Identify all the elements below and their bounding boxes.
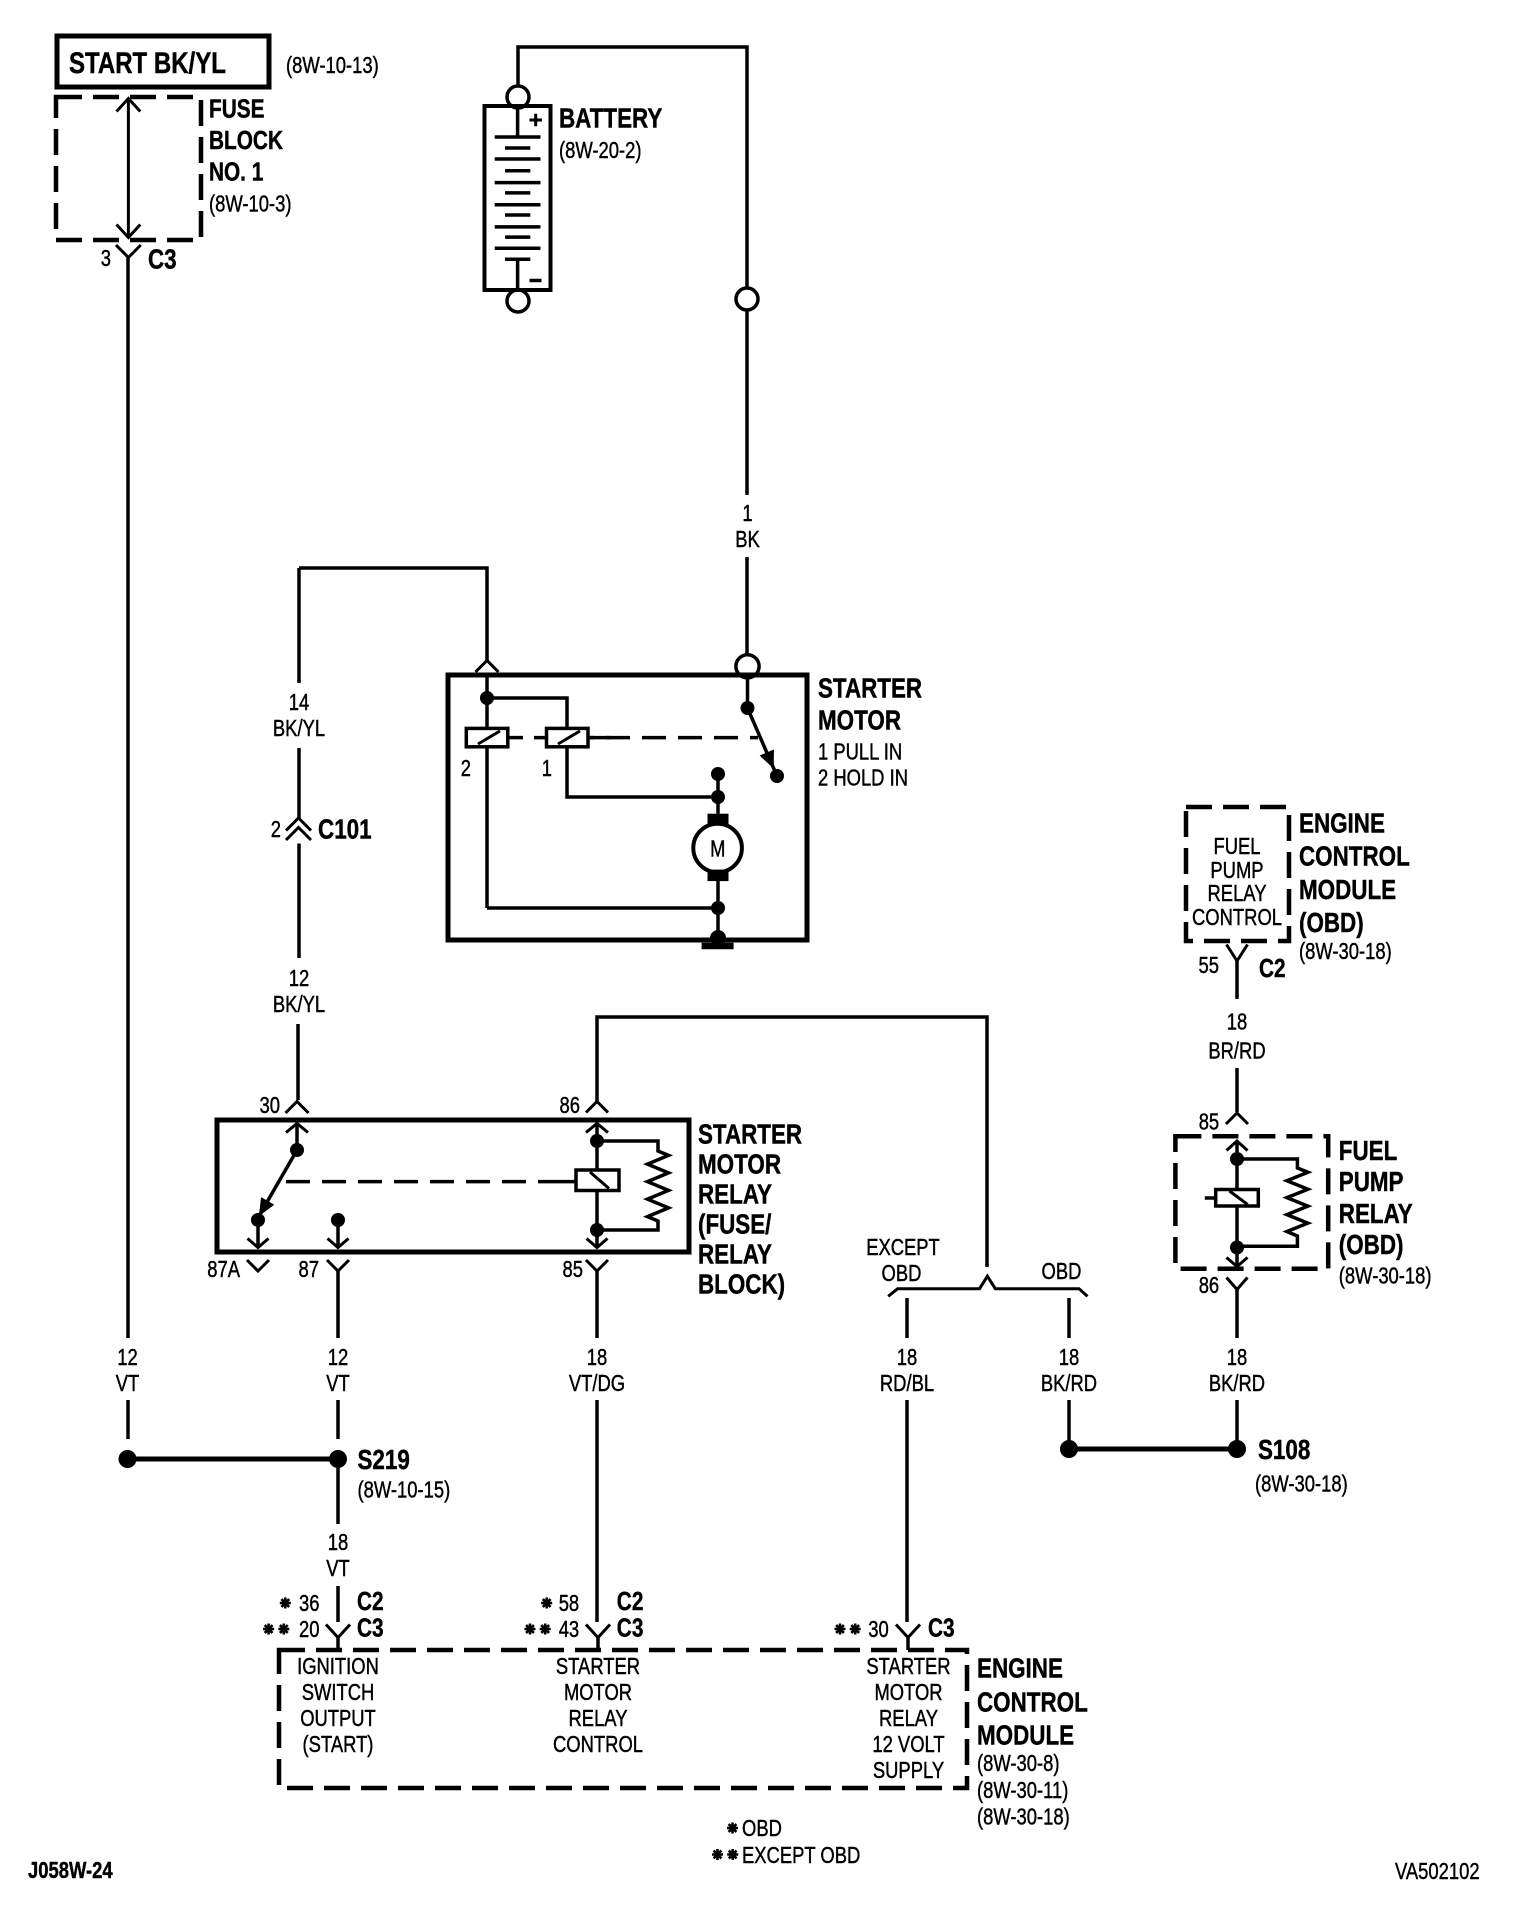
- svg-text:12: 12: [328, 1344, 349, 1370]
- label 12 VT left: [116, 1344, 140, 1396]
- svg-text:(8W-30-18): (8W-30-18): [1255, 1471, 1348, 1497]
- engine control module (OBD) dashed box: [1186, 807, 1289, 941]
- svg-text:C101: C101: [318, 814, 372, 845]
- label STARTER MOTOR RELAY CONTROL: [553, 1653, 643, 1757]
- svg-text:86: 86: [560, 1092, 581, 1118]
- splice S108: [1060, 1440, 1246, 1458]
- connector fork pin 87 below box: [327, 1260, 349, 1271]
- svg-text:MOTOR: MOTOR: [818, 705, 901, 736]
- svg-text:CONTROL: CONTROL: [1192, 904, 1282, 930]
- relay pin 87 stem and arrow: [328, 1220, 349, 1248]
- wire ECM pin 55 to fuel pump relay pin 85: [1235, 1068, 1239, 1112]
- svg-text:12 VOLT: 12 VOLT: [872, 1731, 944, 1757]
- connector C2 pin 55: [1199, 945, 1286, 1000]
- svg-text:BK/RD: BK/RD: [1209, 1370, 1265, 1396]
- fuel pump relay dashed box: [1175, 1136, 1328, 1269]
- label S219 (8W-10-15): [358, 1444, 451, 1503]
- svg-text:MODULE: MODULE: [1299, 874, 1396, 905]
- svg-text:RELAY: RELAY: [569, 1705, 628, 1731]
- svg-text:2 HOLD IN: 2 HOLD IN: [818, 765, 908, 791]
- svg-text:(FUSE/: (FUSE/: [698, 1209, 772, 1240]
- svg-text:(8W-30-8): (8W-30-8): [977, 1750, 1060, 1776]
- svg-text:S108: S108: [1258, 1434, 1310, 1465]
- wire C101 down (12 BK/YL): [297, 844, 301, 959]
- connector fork into starter motor box: [476, 661, 499, 673]
- fixed contact junction dots to motor: [711, 767, 725, 804]
- svg-text:30: 30: [868, 1616, 889, 1642]
- svg-text:BLOCK: BLOCK: [209, 125, 283, 155]
- wire pin 85 to ECM (18 VT/DG): [595, 1271, 599, 1622]
- svg-text:PUMP: PUMP: [1339, 1166, 1404, 1197]
- dashed mechanical link coils to switch: [508, 736, 758, 740]
- svg-text:86: 86: [1199, 1272, 1220, 1298]
- svg-text:VT: VT: [326, 1555, 350, 1581]
- relay pin 85 stem and arrow: [587, 1230, 608, 1248]
- junction motor bottom: [711, 901, 725, 915]
- svg-text:(8W-30-18): (8W-30-18): [1339, 1263, 1432, 1289]
- svg-text:OUTPUT: OUTPUT: [300, 1705, 376, 1731]
- svg-text:MOTOR: MOTOR: [874, 1679, 942, 1705]
- svg-text:(8W-20-2): (8W-20-2): [559, 137, 642, 163]
- connector C101 pin 2: [271, 814, 372, 845]
- footnote legend OBD: [727, 1815, 782, 1841]
- svg-text:87A: 87A: [207, 1256, 240, 1282]
- svg-text:C2: C2: [357, 1586, 384, 1616]
- relay blade with arrow to 87A: [259, 1150, 297, 1216]
- svg-text:C3: C3: [928, 1613, 955, 1643]
- battery positive terminal circle: [507, 86, 529, 108]
- svg-text:85: 85: [1199, 1109, 1220, 1135]
- relay contact 87 dot: [331, 1213, 345, 1227]
- svg-text:SUPPLY: SUPPLY: [873, 1757, 944, 1783]
- relay dashed link blade to coil: [286, 1180, 576, 1184]
- wire split except-OBD / OBD: [888, 1276, 1087, 1296]
- svg-text:CONTROL: CONTROL: [977, 1687, 1088, 1718]
- label 18 RD/BL: [880, 1344, 934, 1396]
- svg-text:1: 1: [542, 755, 552, 781]
- label STARTER MOTOR RELAY (FUSE/ RELAY BLOCK): [698, 1119, 802, 1300]
- switch moving contact dot: [770, 769, 784, 783]
- svg-text:VT: VT: [326, 1370, 350, 1396]
- svg-text:(8W-30-11): (8W-30-11): [977, 1777, 1068, 1803]
- footnote legend EXCEPT OBD: [712, 1842, 860, 1868]
- label ENGINE CONTROL MODULE (OBD) (8W-30-18): [1299, 808, 1410, 965]
- svg-text:36: 36: [299, 1590, 320, 1616]
- svg-text:18: 18: [1059, 1344, 1080, 1370]
- svg-text:M: M: [710, 836, 725, 862]
- svg-text:MOTOR: MOTOR: [564, 1679, 632, 1705]
- svg-text:ENGINE: ENGINE: [1299, 808, 1385, 839]
- coil 2 (hold in): [466, 698, 508, 908]
- svg-text:RELAY: RELAY: [698, 1239, 772, 1270]
- splice S219: [119, 1450, 348, 1468]
- wire terminal to switch pivot: [746, 678, 750, 703]
- svg-text:J058W-24: J058W-24: [28, 1857, 113, 1883]
- svg-text:18: 18: [1227, 1009, 1248, 1035]
- svg-text:OBD: OBD: [882, 1260, 922, 1286]
- footnote stars pin20: [263, 1624, 289, 1635]
- label ENGINE CONTROL MODULE (8W-30-8) (8W-30-11) (8W-30-18): [977, 1653, 1088, 1830]
- label 18 VT/DG: [569, 1344, 625, 1396]
- junction coil feed: [480, 691, 494, 705]
- svg-text:85: 85: [563, 1256, 584, 1282]
- fuel pump relay pin 85 arrow inside: [1227, 1141, 1248, 1155]
- svg-text:FUEL: FUEL: [1339, 1135, 1398, 1166]
- wire starter motor branch down (14 BK/YL): [297, 568, 301, 683]
- wire except-OBD branch (18 RD/BL): [905, 1298, 909, 1622]
- junction relay common: [290, 1143, 304, 1157]
- label 1 BK: [735, 500, 760, 552]
- svg-text:58: 58: [559, 1590, 580, 1616]
- svg-text:ENGINE: ENGINE: [977, 1653, 1063, 1684]
- wire OBD branch (18 BK/RD): [1067, 1298, 1071, 1442]
- switch blade with arrow: [748, 708, 778, 776]
- svg-text:12: 12: [289, 965, 310, 991]
- svg-text:(8W-10-15): (8W-10-15): [358, 1477, 451, 1503]
- label 12 VT middle: [326, 1344, 350, 1396]
- svg-text:RELAY: RELAY: [1208, 880, 1267, 906]
- svg-text:2: 2: [461, 755, 471, 781]
- svg-text:BK: BK: [735, 526, 760, 552]
- svg-text:RELAY: RELAY: [1339, 1198, 1413, 1229]
- svg-text:C3: C3: [357, 1613, 384, 1643]
- svg-text:NO. 1: NO. 1: [209, 157, 263, 187]
- svg-text:(8W-10-3): (8W-10-3): [209, 191, 292, 217]
- starter motor relay box: [217, 1120, 689, 1252]
- svg-text:RELAY: RELAY: [879, 1705, 938, 1731]
- svg-text:OBD: OBD: [742, 1815, 782, 1841]
- svg-text:VT/DG: VT/DG: [569, 1370, 625, 1396]
- svg-text:VT: VT: [116, 1370, 140, 1396]
- svg-text:C2: C2: [617, 1586, 644, 1616]
- junction switch pivot: [741, 701, 755, 715]
- inline terminal circle on BK wire: [736, 288, 758, 310]
- label S108 (8W-30-18): [1255, 1434, 1348, 1497]
- junction fuel pump relay coil top: [1230, 1152, 1244, 1166]
- svg-text:20: 20: [299, 1616, 320, 1642]
- svg-text:SWITCH: SWITCH: [302, 1679, 375, 1705]
- svg-text:BK/YL: BK/YL: [273, 991, 325, 1017]
- svg-text:55: 55: [1199, 952, 1220, 978]
- svg-text:MODULE: MODULE: [977, 1720, 1074, 1751]
- svg-text:VA502102: VA502102: [1395, 1858, 1480, 1884]
- svg-text:BATTERY: BATTERY: [559, 103, 663, 134]
- connector C2/C3 starter motor relay control pins 58/43: [559, 1586, 644, 1650]
- wire label to C101: [297, 748, 301, 818]
- connector C2/C3 ignition switch output pins 36/20: [299, 1586, 384, 1650]
- svg-text:12: 12: [117, 1344, 138, 1370]
- svg-text:CONTROL: CONTROL: [1299, 841, 1410, 872]
- wire motor bottom to case ground: [716, 908, 720, 938]
- starter motor box: [448, 675, 807, 940]
- svg-text:(8W-30-18): (8W-30-18): [977, 1804, 1070, 1830]
- svg-text:START BK/YL: START BK/YL: [69, 47, 226, 80]
- svg-text:2: 2: [271, 816, 281, 842]
- fuel pump relay coil: [1205, 1159, 1258, 1242]
- svg-text:BLOCK): BLOCK): [698, 1269, 785, 1300]
- svg-text:(START): (START): [303, 1731, 374, 1757]
- svg-text:IGNITION: IGNITION: [297, 1653, 379, 1679]
- relay pin 87A stem and arrow: [248, 1220, 269, 1248]
- wire pin 87 to S219 (12 VT): [336, 1271, 340, 1439]
- svg-text:EXCEPT OBD: EXCEPT OBD: [742, 1842, 860, 1868]
- coil 1 (pull in): [547, 728, 712, 797]
- svg-text:RD/BL: RD/BL: [880, 1370, 934, 1396]
- svg-text:OBD: OBD: [1042, 1258, 1082, 1284]
- label FUSE BLOCK NO. 1: [209, 94, 292, 217]
- wire coil2 bottom run to motor ground node: [487, 906, 718, 910]
- fuse block no.1 dashed box: [56, 97, 201, 240]
- label FUEL PUMP RELAY (OBD) (8W-30-18): [1339, 1135, 1432, 1289]
- ground at starter motor case: [702, 930, 734, 946]
- wire S219 down (18 VT): [336, 1468, 340, 1622]
- junction fuel pump relay coil bottom: [1230, 1241, 1244, 1255]
- svg-text:MOTOR: MOTOR: [698, 1149, 781, 1180]
- label 18 VT: [326, 1529, 350, 1581]
- svg-text:(OBD): (OBD): [1299, 907, 1364, 938]
- svg-text:RELAY: RELAY: [698, 1179, 772, 1210]
- junction coil bottom: [590, 1223, 604, 1237]
- svg-text:STARTER: STARTER: [818, 673, 922, 704]
- wire C3 to S219 (12 VT): [126, 258, 130, 1440]
- svg-text:30: 30: [260, 1092, 281, 1118]
- label EXCEPT OBD: [866, 1234, 940, 1286]
- wire battery positive to starter motor (1 BK): [518, 47, 747, 655]
- footnote stars pin30: [835, 1624, 861, 1635]
- wire pull-in feed inside box: [485, 677, 489, 698]
- svg-text:BR/RD: BR/RD: [1208, 1038, 1265, 1064]
- svg-text:STARTER: STARTER: [866, 1653, 950, 1679]
- engine control module dashed box: [279, 1650, 967, 1788]
- relay contact 87A dot: [251, 1213, 265, 1227]
- svg-text:18: 18: [328, 1529, 349, 1555]
- svg-text:(8W-30-18): (8W-30-18): [1299, 938, 1392, 964]
- connector fork pin 87A below box: [247, 1260, 269, 1271]
- svg-text:FUEL: FUEL: [1214, 833, 1261, 859]
- svg-text:18: 18: [587, 1344, 608, 1370]
- connector fork into relay pin 30: [286, 1102, 309, 1114]
- svg-text:(OBD): (OBD): [1339, 1229, 1404, 1260]
- svg-text:14: 14: [289, 689, 310, 715]
- battery negative terminal circle: [507, 290, 529, 312]
- svg-text:C3: C3: [617, 1613, 644, 1643]
- svg-text:FUSE: FUSE: [209, 94, 265, 124]
- connector fork into relay pin 86: [586, 1102, 608, 1113]
- junction coil top: [590, 1134, 604, 1148]
- label 18 BK/RD left: [1041, 1344, 1097, 1396]
- label STARTER MOTOR RELAY 12 VOLT SUPPLY: [866, 1653, 950, 1783]
- svg-text:STARTER: STARTER: [698, 1119, 802, 1150]
- svg-text:18: 18: [1227, 1344, 1248, 1370]
- label 18 BR/RD: [1208, 1009, 1265, 1064]
- svg-text:S219: S219: [358, 1444, 410, 1475]
- relay pin 30 arrow inside: [286, 1124, 308, 1146]
- wire inside fuse block with arrows: [117, 99, 141, 238]
- svg-text:43: 43: [559, 1616, 580, 1642]
- svg-text:1 PULL IN: 1 PULL IN: [818, 739, 902, 765]
- label 12 BK/YL: [273, 965, 325, 1017]
- wire fuse block branch to starter motor: [299, 568, 487, 661]
- connector fork into fuel pump relay pin 85: [1226, 1113, 1248, 1124]
- fuel pump relay pin 86 stem and arrow: [1227, 1248, 1248, 1267]
- svg-text:C3: C3: [148, 244, 177, 275]
- starter motor terminal circle on box edge: [736, 655, 759, 678]
- svg-text:1: 1: [742, 500, 752, 526]
- connector C3 fuse block, pin 3: [101, 244, 177, 275]
- label 18 BK/RD right: [1209, 1344, 1265, 1396]
- label 14 BK/YL: [273, 689, 325, 741]
- connector fork pin 85 below box: [586, 1260, 608, 1271]
- footnote star pin36: [280, 1598, 291, 1609]
- motor M: [693, 797, 742, 901]
- svg-text:87: 87: [299, 1256, 320, 1282]
- label FUEL PUMP RELAY CONTROL: [1192, 833, 1282, 930]
- connector C3 starter motor relay 12V supply pin 30: [868, 1613, 954, 1651]
- svg-text:3: 3: [101, 245, 111, 271]
- battery: [485, 106, 551, 290]
- footnote stars pin43: [525, 1624, 551, 1635]
- svg-text:EXCEPT: EXCEPT: [866, 1234, 940, 1260]
- wire fuel pump relay pin 86 to S108 (18 BK/RD): [1235, 1290, 1239, 1443]
- svg-text:(8W-10-13): (8W-10-13): [286, 52, 379, 78]
- relay suppression resistor: [597, 1141, 669, 1230]
- svg-text:BK/RD: BK/RD: [1041, 1370, 1097, 1396]
- svg-text:C2: C2: [1259, 953, 1286, 983]
- node START BK/YL feed box: [57, 36, 269, 87]
- relay pin 86 arrow inside: [586, 1124, 608, 1142]
- footnote star pin58: [541, 1598, 552, 1609]
- label BATTERY (8W-20-2): [559, 103, 663, 164]
- label STARTER MOTOR 1 PULL IN 2 HOLD IN: [818, 673, 922, 791]
- fuel pump relay suppression resistor: [1237, 1159, 1308, 1246]
- relay coil: [576, 1141, 619, 1225]
- label IGNITION SWITCH OUTPUT (START): [297, 1653, 379, 1757]
- wire label to relay pin 30: [296, 1024, 300, 1100]
- wire junction to coil 1: [487, 698, 567, 728]
- svg-text:BK/YL: BK/YL: [273, 715, 325, 741]
- svg-text:18: 18: [897, 1344, 918, 1370]
- wire relay pin 86 feed from ECM OBD branch: [597, 1017, 987, 1267]
- connector fork pin 86 below box: [1227, 1278, 1248, 1290]
- svg-text:STARTER: STARTER: [556, 1653, 640, 1679]
- svg-text:CONTROL: CONTROL: [553, 1731, 643, 1757]
